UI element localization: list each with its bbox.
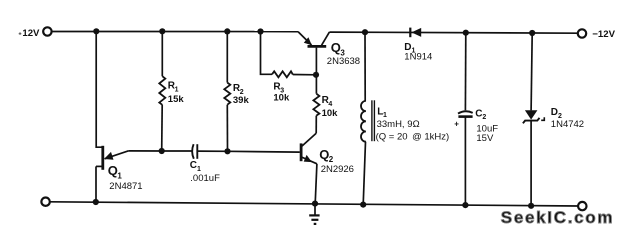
resistor R2 bbox=[224, 83, 230, 105]
wire C1 to Q2 base bbox=[197, 151, 299, 152]
label C1 bbox=[190, 160, 201, 173]
node junction top rail at R3 branch bbox=[257, 28, 263, 34]
svg-text:12V: 12V bbox=[22, 28, 40, 39]
label L1 bbox=[377, 106, 387, 119]
wire Q1 base1 to bottom rail bbox=[95, 166, 97, 201]
svg-text:2N3638: 2N3638 bbox=[327, 56, 360, 67]
node junction top rail at Q1 base2 bbox=[93, 28, 99, 34]
svg-text:Q: Q bbox=[319, 147, 329, 162]
wire L1 bottom bbox=[363, 142, 365, 205]
node junction bottom rail at Q1 base1 bbox=[93, 199, 99, 205]
svg-text:1: 1 bbox=[175, 86, 179, 93]
node junction top rail at L1 bbox=[362, 29, 368, 35]
label Q1 bbox=[108, 163, 123, 180]
ground bbox=[309, 204, 319, 224]
svg-text:(Q = 20 @ 1kHz): (Q = 20 @ 1kHz) bbox=[376, 132, 450, 143]
label D1 bbox=[404, 42, 415, 55]
wire bottom ground rail bbox=[50, 202, 578, 206]
label R4 bbox=[322, 95, 333, 108]
transistor Q2 (NPN 2N2926) bbox=[301, 133, 317, 164]
svg-text:15V: 15V bbox=[476, 133, 494, 144]
svg-text:39k: 39k bbox=[233, 95, 250, 106]
wire +12V top rail (terminal to Q3 emitter) bbox=[52, 31, 298, 33]
node junction bottom rail at L1 bbox=[360, 202, 366, 208]
wire C2 top bbox=[464, 33, 466, 111]
transistor Q3 (PNP 2N3638) bbox=[298, 32, 329, 47]
terminal bottom right bbox=[578, 202, 586, 210]
svg-text:1N914: 1N914 bbox=[404, 51, 432, 62]
diode D1 (1N914, cathode left) bbox=[410, 28, 421, 38]
wire C2 bottom bbox=[464, 117, 466, 206]
svg-text:10k: 10k bbox=[273, 92, 290, 103]
wire D2 top bbox=[531, 33, 532, 110]
wire Q1 emitter to C1 bbox=[128, 150, 191, 152]
svg-text:2: 2 bbox=[482, 114, 486, 121]
wire R2 top bbox=[226, 31, 228, 82]
wire L1 top bbox=[364, 32, 366, 101]
svg-text:33mH, 9Ω: 33mH, 9Ω bbox=[377, 119, 420, 130]
wire Q2 emitter to ground rail bbox=[315, 164, 317, 204]
resistor R4 bbox=[313, 94, 319, 116]
terminal bottom left bbox=[41, 198, 49, 206]
svg-text:1: 1 bbox=[197, 166, 201, 173]
wire R2 bottom bbox=[226, 105, 228, 152]
resistor R3 bbox=[272, 71, 293, 77]
svg-text:2N2926: 2N2926 bbox=[321, 164, 354, 175]
wire Q1 base2 drop bbox=[96, 31, 102, 147]
capacitor C2 (10uF 15V electrolytic) bbox=[458, 111, 473, 116]
wire R4 to Q2 collector bbox=[315, 116, 317, 134]
terminal -12V bbox=[578, 29, 586, 37]
label R1 bbox=[168, 81, 179, 94]
node junction top rail at D2 bbox=[529, 30, 535, 36]
inductor L1 (33mH) bbox=[361, 100, 374, 141]
wire Q3 base to R4 bbox=[315, 48, 317, 94]
node junction top rail at R1 bbox=[159, 28, 165, 34]
svg-text:SeekIC.com: SeekIC.com bbox=[501, 208, 614, 227]
svg-text:C: C bbox=[475, 108, 482, 119]
node junction top rail at R2 bbox=[224, 28, 230, 34]
svg-text:10k: 10k bbox=[322, 108, 339, 119]
wire D2 bottom bbox=[530, 121, 532, 206]
node junction bottom rail at D2 bbox=[528, 203, 534, 209]
wire R1 bottom bbox=[161, 105, 164, 151]
svg-text:1: 1 bbox=[117, 172, 122, 181]
terminal +12V bbox=[43, 27, 51, 35]
label +12V bbox=[18, 28, 40, 39]
svg-text:1N4742: 1N4742 bbox=[551, 119, 584, 130]
resistor R1 bbox=[159, 76, 165, 105]
svg-text:2N4871: 2N4871 bbox=[109, 181, 142, 192]
node junction R1 bottom bbox=[159, 148, 165, 154]
capacitor C1 (.001uF) bbox=[192, 144, 197, 159]
transistor Q1 (UJT 2N4871) bbox=[96, 146, 128, 170]
node junction top rail at C2 bbox=[463, 30, 469, 36]
wire R1 top bbox=[161, 31, 163, 76]
node junction R2 bottom bbox=[224, 148, 230, 154]
label R2 bbox=[233, 83, 244, 96]
svg-text:15k: 15k bbox=[168, 94, 185, 105]
label R3 bbox=[273, 82, 284, 95]
label Q3 bbox=[331, 40, 346, 58]
diode D2 (zener 1N4742, cathode down) bbox=[523, 110, 544, 123]
svg-text:+: + bbox=[454, 120, 459, 129]
wire R3 to Q3 base node bbox=[293, 74, 317, 76]
svg-text:−12V: −12V bbox=[592, 29, 615, 40]
label C2 bbox=[475, 108, 486, 121]
wire -12V top rail (Q3 collector to terminal) bbox=[329, 32, 578, 33]
wire R3 branch from rail bbox=[261, 32, 273, 75]
svg-text:D: D bbox=[551, 107, 558, 118]
svg-text:C: C bbox=[190, 160, 197, 171]
label Q2 bbox=[319, 147, 334, 164]
node junction bottom rail at C2 bbox=[462, 202, 468, 208]
svg-text:.001uF: .001uF bbox=[190, 173, 220, 184]
label D2 bbox=[551, 107, 562, 120]
node junction R3 / Q3 base bbox=[313, 72, 319, 78]
node junction bottom rail at Q2 emitter / ground bbox=[312, 201, 318, 207]
svg-text:4: 4 bbox=[328, 101, 332, 108]
